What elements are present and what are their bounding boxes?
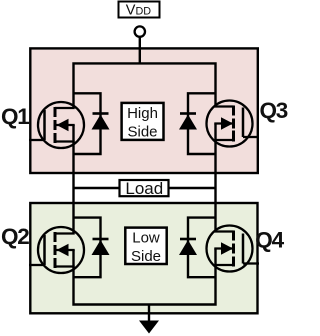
svg-text:Q2: Q2 — [1, 224, 29, 249]
wire: left bridge column (Q1 source to Q2 drain) — [72, 125, 74, 234]
low-side region box — [30, 203, 257, 313]
wire: load stubs — [74, 187, 121, 189]
wire: right bridge column (Q3 source to Q4 drain) — [214, 124, 216, 232]
Load box — [120, 180, 169, 196]
svg-text:Low: Low — [132, 230, 160, 247]
high-side region box — [30, 48, 257, 173]
svg-text:Q1: Q1 — [1, 104, 29, 129]
wire: D3 branch loop — [188, 93, 216, 154]
transistor Q3 — [207, 101, 260, 147]
wire: D2 branch loop — [74, 218, 101, 278]
diode D2 — [92, 239, 110, 255]
svg-text:VDD: VDD — [126, 3, 151, 19]
svg-text:Load: Load — [125, 179, 163, 198]
svg-text:Side: Side — [127, 123, 157, 140]
wire: ground rail with source leads — [74, 249, 216, 305]
VDD terminal box — [119, 2, 160, 18]
transistor Q1 — [29, 102, 84, 148]
wire: top rail with drain leads — [74, 63, 216, 108]
wire: D1 branch loop — [74, 93, 101, 154]
Low Side box — [125, 228, 166, 264]
transistor Q2 — [29, 227, 84, 273]
diode D4 — [179, 239, 197, 255]
transistor Q4 — [207, 226, 260, 272]
ground arrow — [139, 321, 159, 334]
VDD node circle — [135, 26, 145, 36]
svg-text:Q3: Q3 — [260, 98, 288, 123]
High Side box — [122, 103, 164, 140]
ground lead — [148, 305, 150, 322]
svg-text:Q4: Q4 — [255, 227, 284, 252]
diode D1 — [92, 114, 110, 130]
wire: VDD drop — [139, 37, 141, 65]
svg-text:High: High — [127, 105, 158, 122]
diode D3 — [179, 114, 197, 130]
svg-text:Side: Side — [131, 248, 161, 265]
wire: D4 branch loop — [188, 218, 216, 278]
